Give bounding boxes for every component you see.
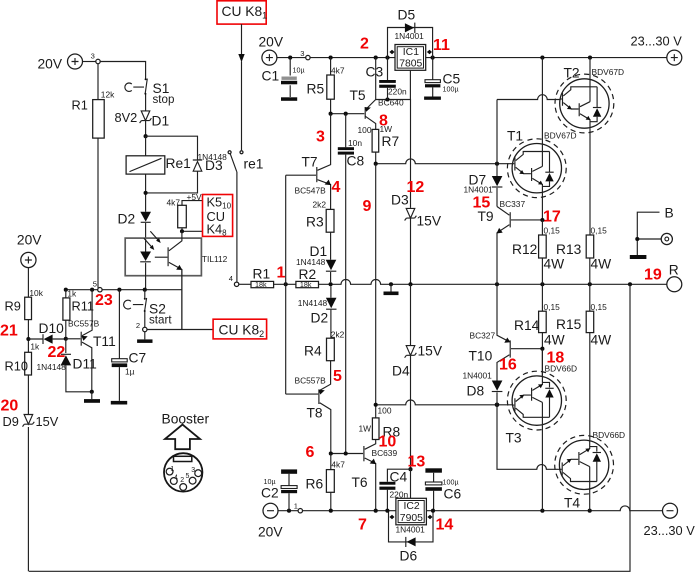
svg-text:D9: D9 [3,414,19,429]
svg-text:5: 5 [333,368,342,385]
svg-text:re1: re1 [244,157,264,172]
svg-text:T10: T10 [469,349,493,364]
svg-text:R: R [669,263,679,278]
svg-text:100: 100 [358,125,372,135]
svg-text:10: 10 [379,434,397,451]
svg-text:1W: 1W [359,424,372,434]
svg-text:20: 20 [1,398,19,415]
svg-text:BC337: BC337 [500,199,526,209]
svg-text:BDV66D: BDV66D [593,430,626,440]
svg-text:14: 14 [436,517,454,534]
svg-text:1N4001: 1N4001 [463,371,493,381]
svg-text:23...30 V: 23...30 V [631,34,683,49]
svg-text:T4: T4 [564,496,580,511]
svg-text:20V: 20V [38,57,63,72]
svg-text:R6: R6 [306,477,324,492]
svg-text:BDV67D: BDV67D [544,131,577,141]
svg-text:0,15: 0,15 [591,226,608,236]
svg-text:4k7: 4k7 [167,198,181,208]
svg-text:7905: 7905 [400,513,423,524]
svg-text:R15: R15 [556,317,582,332]
svg-text:1k: 1k [30,342,40,352]
svg-text:D8: D8 [467,384,485,399]
svg-text:15V: 15V [417,214,442,229]
svg-text:CU K82: CU K82 [219,323,265,340]
svg-text:D5: D5 [398,8,416,23]
svg-text:D2: D2 [118,212,136,227]
svg-text:T11: T11 [93,334,116,349]
svg-text:100: 100 [378,406,392,416]
svg-text:stop: stop [153,93,175,106]
svg-text:T3: T3 [506,431,522,446]
svg-text:1N4148: 1N4148 [296,257,326,267]
svg-text:T6: T6 [352,475,368,490]
svg-text:R13: R13 [556,242,582,257]
svg-text:20V: 20V [259,35,284,50]
svg-text:0,15: 0,15 [544,302,561,312]
svg-text:20V: 20V [258,525,283,540]
svg-text:17: 17 [543,209,561,226]
svg-text:11: 11 [433,37,450,54]
svg-text:0,15: 0,15 [544,226,561,236]
svg-text:BC557B: BC557B [295,376,327,386]
svg-text:C3: C3 [366,65,384,80]
svg-text:D10: D10 [39,321,65,336]
svg-text:T5: T5 [350,88,366,103]
svg-text:R2: R2 [299,267,317,282]
svg-text:9: 9 [363,198,372,215]
svg-text:BDV67D: BDV67D [592,67,625,77]
svg-text:R1: R1 [72,98,88,113]
svg-text:R4: R4 [304,344,322,359]
svg-text:D6: D6 [400,549,418,564]
svg-text:100µ: 100µ [443,85,459,94]
svg-text:4W: 4W [591,257,612,272]
svg-text:R1: R1 [253,267,271,282]
svg-text:2k2: 2k2 [331,330,345,340]
svg-text:BC640: BC640 [378,98,404,108]
svg-text:12k: 12k [101,90,115,100]
svg-text:CU K81: CU K81 [222,4,268,21]
svg-text:23...30 V: 23...30 V [644,523,696,538]
svg-text:C4: C4 [390,470,408,485]
svg-text:+5V: +5V [187,192,203,202]
svg-text:BC327: BC327 [470,331,496,341]
svg-text:3: 3 [91,52,95,61]
svg-text:10n: 10n [348,138,362,148]
svg-text:7805: 7805 [399,59,422,70]
svg-text:IC1: IC1 [403,47,419,58]
svg-text:C7: C7 [129,351,147,366]
svg-text:12: 12 [407,179,425,196]
svg-text:5: 5 [93,280,97,289]
svg-text:15: 15 [473,195,491,212]
svg-text:100µ: 100µ [443,478,459,487]
svg-text:8V2: 8V2 [115,110,138,125]
svg-text:D4: D4 [392,364,410,379]
svg-text:D3: D3 [205,158,223,173]
svg-text:1N4148: 1N4148 [298,298,328,308]
svg-text:TIL112: TIL112 [202,254,228,264]
svg-text:BC557B: BC557B [68,319,100,329]
svg-text:T1: T1 [507,129,523,144]
svg-text:R12: R12 [512,242,537,257]
svg-text:R14: R14 [514,318,540,333]
svg-text:T7: T7 [302,155,318,170]
svg-text:10µ: 10µ [293,66,305,75]
svg-text:6: 6 [306,444,315,461]
svg-text:4k7: 4k7 [331,66,345,76]
svg-text:4W: 4W [544,333,565,348]
svg-text:C2: C2 [261,486,279,501]
svg-text:T8: T8 [307,406,323,421]
svg-text:D2: D2 [311,311,329,326]
svg-text:4: 4 [229,274,233,283]
svg-text:15V: 15V [36,414,59,429]
svg-text:3: 3 [300,49,304,58]
svg-text:4k7: 4k7 [331,460,345,470]
svg-text:1N4001: 1N4001 [396,525,426,535]
svg-text:1N4001: 1N4001 [395,31,425,41]
svg-text:D11: D11 [73,357,97,372]
svg-text:21: 21 [0,323,18,340]
svg-text:3: 3 [316,129,325,146]
svg-text:2k2: 2k2 [313,200,327,210]
svg-text:C8: C8 [347,154,365,169]
svg-text:C6: C6 [444,487,462,502]
svg-text:19: 19 [644,267,662,284]
svg-text:23: 23 [95,292,113,309]
svg-text:7: 7 [358,517,367,534]
svg-text:1N4148: 1N4148 [37,362,67,372]
svg-text:B: B [665,206,674,221]
svg-text:T2: T2 [564,66,580,81]
svg-text:R5: R5 [307,82,325,97]
svg-text:1: 1 [277,265,286,282]
svg-text:1: 1 [294,502,298,511]
svg-text:16: 16 [499,357,517,374]
svg-text:2: 2 [136,321,140,330]
svg-text:BC547B: BC547B [295,186,327,196]
svg-text:R11: R11 [72,299,95,314]
svg-text:18: 18 [547,350,565,367]
svg-text:4: 4 [332,179,341,196]
svg-text:Re1: Re1 [166,156,191,171]
svg-text:4W: 4W [544,257,565,272]
svg-text:IC2: IC2 [404,501,420,512]
svg-text:2: 2 [360,36,369,53]
svg-text:Booster: Booster [162,412,210,427]
svg-text:1: 1 [170,466,174,473]
svg-text:start: start [149,314,172,327]
svg-text:10k: 10k [29,288,43,298]
svg-text:15V: 15V [418,344,443,359]
svg-text:13: 13 [408,454,426,471]
svg-text:4: 4 [174,474,178,481]
svg-text:1W: 1W [380,124,393,134]
svg-text:220n: 220n [388,87,407,97]
svg-text:0,15: 0,15 [591,302,608,312]
svg-text:D1: D1 [152,114,170,129]
svg-text:R7: R7 [382,134,400,149]
svg-text:1µ: 1µ [125,367,135,377]
svg-text:C1: C1 [262,69,280,84]
svg-text:2: 2 [180,477,184,484]
svg-text:R3: R3 [306,215,324,230]
svg-text:20V: 20V [17,233,42,248]
svg-text:1k: 1k [67,289,77,299]
svg-text:4W: 4W [591,333,612,348]
svg-text:R10: R10 [5,359,28,374]
svg-text:5: 5 [186,473,190,480]
svg-text:R9: R9 [5,299,21,314]
svg-text:3: 3 [191,467,195,474]
svg-text:22: 22 [48,344,66,361]
svg-text:1N4001: 1N4001 [464,185,494,195]
